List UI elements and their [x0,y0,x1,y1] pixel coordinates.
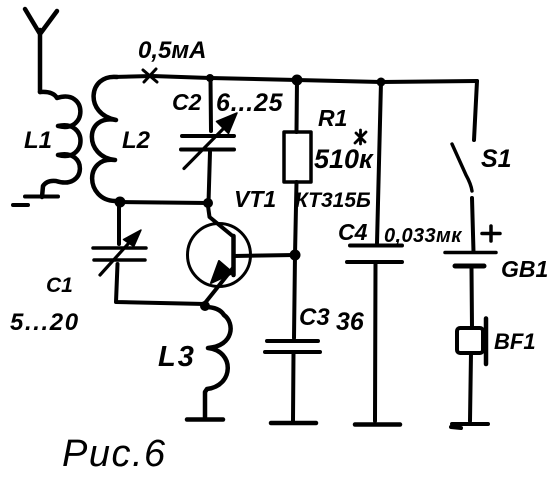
coil L1 [40,92,81,197]
svg-text:GB1: GB1 [501,256,548,282]
svg-text:C2: C2 [172,89,202,115]
wire C2 upper [209,78,214,131]
wire top rail corner to switch [474,81,477,140]
svg-text:510к: 510к [314,144,374,174]
ground (under L3) [187,417,223,422]
wire C1 upper [117,202,121,244]
node (C4 / top rail) [377,78,386,87]
svg-text:BF1: BF1 [494,329,536,354]
capacitor C2 (variable) [181,136,234,150]
svg-text:КТ315Б: КТ315Б [295,189,371,212]
emitter lead [205,268,233,303]
node (base / R1 / C3) [290,250,301,261]
svg-text:6...25: 6...25 [216,89,284,117]
earphone BF1 [457,328,483,353]
svg-text:C3: C3 [299,304,330,331]
svg-text:L2: L2 [122,127,151,154]
capacitor C4 [347,246,402,263]
coil L3 [205,307,231,417]
svg-text:0,033мк: 0,033мк [384,225,462,247]
svg-text:C1: C1 [46,274,73,297]
wire BF1 lower [470,353,471,421]
node (R1 / top rail) [292,75,303,86]
svg-text:R1: R1 [318,105,347,131]
svg-text:VT1: VT1 [234,186,276,212]
svg-text:L3: L3 [158,341,196,373]
ground (under C4) [355,422,400,427]
svg-text:C4: C4 [338,219,368,245]
label asterisk [355,130,366,144]
node (C2 / top rail) [206,74,214,82]
battery GB1 [445,251,496,255]
ground (under L1) [13,197,58,206]
capacitor C3 [265,341,320,352]
emitter arrow [211,261,233,283]
wire C4 lower [373,264,378,421]
svg-text:Рис.6: Рис.6 [62,433,167,475]
wire L2 bottom to collector node [120,202,208,203]
ground (under BF1) [451,424,488,428]
ground (under C3) [271,421,316,426]
node (emitter / C1 / L3) [200,301,210,311]
wire top rail [112,76,477,82]
svg-text:S1: S1 [481,145,512,173]
svg-text:5...20: 5...20 [10,309,80,336]
break X (current measurement point) [143,69,157,82]
base lead [234,255,295,256]
node (collector junction) [203,198,213,208]
transistor VT1 [188,224,251,287]
collector lead [208,206,232,236]
wire R1 upper [295,80,300,132]
switch S1 [452,144,472,191]
svg-text:0,5мА: 0,5мА [138,37,206,64]
resistor R1 [284,132,311,182]
wire C2 lower [209,152,211,203]
wire C3 lower [291,352,296,421]
coil L2 [92,77,120,202]
wire C1 lower to emitter node [116,264,205,304]
svg-text:L1: L1 [24,127,52,154]
wire R1 lower [295,182,297,255]
node (L2 bottom / C1 top) [115,197,126,208]
label + [482,226,500,241]
wire C3 upper [294,255,295,338]
capacitor C1 (variable) [93,248,146,260]
antenna [25,9,57,92]
svg-text:36: 36 [336,308,365,336]
wire C4 upper [377,82,381,243]
wire battery to BF1 [470,268,475,328]
